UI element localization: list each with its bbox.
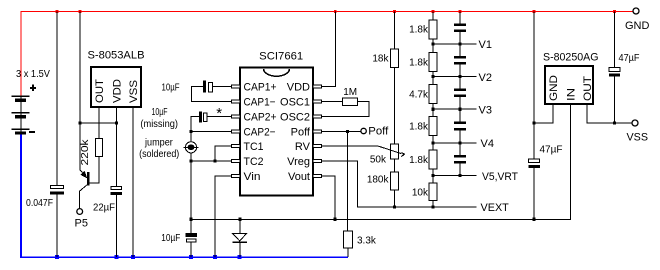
wire to VDD pin <box>80 122 117 124</box>
svg-text:Poff: Poff <box>368 126 389 138</box>
svg-text:VDD: VDD <box>111 79 123 103</box>
node Poff terminal <box>361 128 366 133</box>
svg-text:47µF: 47µF <box>540 145 563 156</box>
svg-text:OSC1: OSC1 <box>280 97 310 109</box>
svg-text:10µF: 10µF <box>152 107 168 118</box>
node junction <box>78 121 81 124</box>
svg-text:V1: V1 <box>479 39 492 51</box>
svg-text:VEXT: VEXT <box>481 202 510 214</box>
pin labels U2 <box>244 82 311 184</box>
node tap junctions <box>431 42 461 177</box>
svg-text:(missing): (missing) <box>140 119 178 130</box>
wire OUT pin <box>98 107 100 139</box>
wire VDD branch from rail <box>79 12 81 171</box>
resistor R11 1.8k <box>429 150 437 169</box>
node junction <box>189 159 192 162</box>
resistor ladder R7-R12 <box>432 12 434 208</box>
resistor R7 1.8k <box>429 20 437 39</box>
tap wires V1-V5 <box>433 44 477 176</box>
svg-text:4.7k: 4.7k <box>409 90 429 101</box>
battery B1 3 x 1.5V <box>12 69 51 135</box>
wire VDD to rail <box>322 12 336 87</box>
node rail junction dots (red) <box>56 10 616 13</box>
capacitor C2 22uF <box>93 186 122 257</box>
svg-text:VSS: VSS <box>627 132 649 144</box>
svg-text:S-80250AG: S-80250AG <box>543 51 599 63</box>
capacitor C10 <box>454 155 466 157</box>
svg-text:(soldered): (soldered) <box>139 149 179 160</box>
resistor R9 4.7k <box>429 85 437 104</box>
wire VDD pin down <box>116 107 118 186</box>
svg-text:CAP2+: CAP2+ <box>244 112 277 124</box>
svg-text:Vreg: Vreg <box>287 156 310 168</box>
svg-text:CAP1+: CAP1+ <box>244 82 277 94</box>
svg-text:*: * <box>216 105 222 122</box>
capacitor C5 10uF (bottom) <box>161 219 197 257</box>
capacitor C1 0.047F <box>26 12 64 258</box>
svg-text:1.8k: 1.8k <box>409 155 429 166</box>
capacitor C9 <box>454 122 466 124</box>
node junction <box>238 218 241 221</box>
wire GND top rail (red) <box>21 11 634 96</box>
svg-text:18k: 18k <box>372 54 389 65</box>
wire base <box>89 157 100 184</box>
svg-text:1.8k: 1.8k <box>409 122 429 133</box>
potentiometer R4 50k <box>322 144 405 166</box>
pin boxes right <box>313 85 322 178</box>
capacitor C4 10uF (CAP2, asterisk) <box>191 105 231 132</box>
svg-text:V4: V4 <box>481 138 494 150</box>
svg-text:P5: P5 <box>75 218 88 230</box>
wire VSS pin down <box>132 107 134 257</box>
svg-text:3.3k: 3.3k <box>357 236 377 247</box>
svg-text:V3: V3 <box>479 104 492 116</box>
svg-text:TC1: TC1 <box>244 141 264 153</box>
jumper J1 (soldered) <box>184 132 199 162</box>
node junction <box>213 159 216 162</box>
resistor R6 180k <box>367 159 399 207</box>
svg-text:VDD: VDD <box>287 82 310 94</box>
svg-text:CAP1−: CAP1− <box>244 97 276 109</box>
svg-text:10µF: 10µF <box>161 233 180 244</box>
wire GND pin <box>534 104 553 123</box>
wire Poff to 3.3k <box>347 132 349 232</box>
node junction <box>115 121 118 124</box>
wire Poff <box>322 131 361 133</box>
svg-text:47µF: 47µF <box>619 53 640 64</box>
wire TC2 <box>191 160 231 162</box>
node junction <box>333 218 336 221</box>
svg-text:TC2: TC2 <box>244 156 264 168</box>
svg-text:OUT: OUT <box>582 76 594 101</box>
svg-text:3 x 1.5V: 3 x 1.5V <box>16 69 50 80</box>
svg-text:180k: 180k <box>367 175 390 186</box>
node bus junction dots (blue) <box>55 255 242 259</box>
wire Vout down <box>322 176 335 219</box>
svg-text:OUT: OUT <box>94 79 106 103</box>
svg-text:V5,VRT: V5,VRT <box>482 171 518 183</box>
wire Vout net (horizontal) <box>191 104 571 219</box>
svg-text:IN: IN <box>565 88 577 101</box>
svg-text:Vin: Vin <box>244 171 261 183</box>
svg-text:0.047F: 0.047F <box>26 198 53 209</box>
IC U1 S-8053ALB <box>88 49 145 107</box>
node junction <box>532 218 535 221</box>
capacitor C8 <box>454 89 466 91</box>
capacitor C11 47uF <box>529 12 563 220</box>
svg-text:S-8053ALB: S-8053ALB <box>88 49 145 61</box>
svg-text:1M: 1M <box>343 87 357 98</box>
resistor R12 10k <box>429 183 437 201</box>
capacitor C6 <box>454 23 466 25</box>
diode D1 <box>232 219 247 257</box>
resistor R8 1.8k <box>429 53 437 72</box>
svg-text:22µF: 22µF <box>93 203 115 214</box>
capacitor C12 47uF <box>609 12 640 124</box>
node junction <box>189 218 192 221</box>
wire Vreg / VEXT <box>322 161 477 207</box>
svg-text:10µF: 10µF <box>162 83 180 94</box>
svg-text:CAP2−: CAP2− <box>244 127 276 139</box>
capacitor column C6-C10 <box>459 12 461 176</box>
svg-text:10k: 10k <box>412 187 429 198</box>
pin boxes left <box>231 85 240 178</box>
wire CAP2- <box>191 131 231 133</box>
svg-text:Poff: Poff <box>291 127 311 139</box>
IC U2 SCI7661 <box>240 50 313 195</box>
transistor Q1 <box>80 170 90 209</box>
svg-text:V2: V2 <box>479 72 492 84</box>
svg-text:1.8k: 1.8k <box>409 25 429 36</box>
capacitor C3 10uF (CAP1) <box>162 81 232 102</box>
svg-text:50k: 50k <box>370 155 387 166</box>
svg-text:SCI7661: SCI7661 <box>259 50 303 62</box>
resistor R5 18k <box>372 12 398 145</box>
IC U3 S-80250AG <box>543 51 599 104</box>
node junction <box>189 130 192 133</box>
svg-text:OSC2: OSC2 <box>280 112 310 124</box>
node P5 terminal <box>77 209 83 215</box>
node junction <box>613 121 616 124</box>
svg-text:VSS: VSS <box>128 80 140 103</box>
node junction <box>532 121 535 124</box>
svg-text:jumper: jumper <box>144 137 173 148</box>
capacitor C7 <box>454 56 466 58</box>
node junction <box>346 130 349 133</box>
wire Vin to bus <box>215 176 231 257</box>
svg-text:1.8k: 1.8k <box>409 58 429 69</box>
svg-text:Vout: Vout <box>288 171 310 183</box>
svg-text:GND: GND <box>625 20 650 32</box>
node GND terminal <box>633 8 639 14</box>
node VSS terminal <box>632 120 638 126</box>
svg-text:220k: 220k <box>80 138 91 165</box>
svg-text:GND: GND <box>548 75 560 101</box>
resistor R3 3.3k <box>344 231 377 257</box>
svg-text:RV: RV <box>295 141 311 153</box>
wire TC1 tie <box>215 146 231 161</box>
node junction <box>393 205 396 208</box>
wire OUT pin to VSS <box>587 104 632 123</box>
resistor R1 220k <box>80 138 103 165</box>
resistor R2 1M <box>322 87 370 117</box>
wire VSS bottom bus (blue) <box>21 135 348 258</box>
resistor R10 1.8k <box>429 117 437 136</box>
node junction <box>431 205 434 208</box>
